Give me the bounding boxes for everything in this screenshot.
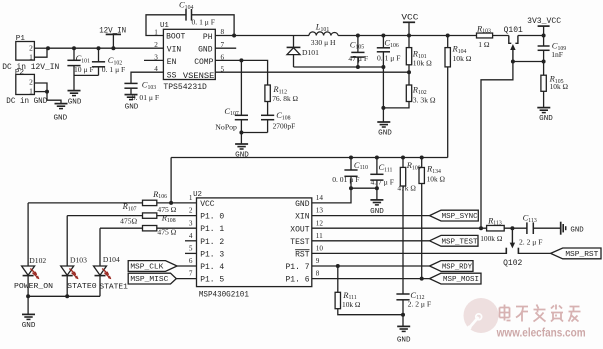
svg-text:GND: GND <box>295 200 310 209</box>
net MSP_MISC <box>128 273 196 284</box>
svg-text:3: 3 <box>189 219 193 227</box>
svg-text:10: 10 <box>316 245 324 253</box>
wire <box>27 296 29 314</box>
wire VCC rail <box>338 35 476 37</box>
svg-text:1nF: 1nF <box>551 50 563 59</box>
capacitor C102 <box>92 48 125 75</box>
resistor R112 <box>265 84 299 103</box>
svg-text:PH: PH <box>203 33 213 42</box>
net MSP_RDY <box>430 261 474 272</box>
node <box>381 65 385 69</box>
svg-text:1: 1 <box>189 194 193 202</box>
capacitor C105 <box>348 36 368 68</box>
svg-text:47k Ω: 47k Ω <box>397 184 416 193</box>
resistor R134 <box>419 158 446 279</box>
svg-text:11: 11 <box>316 232 323 240</box>
ground <box>22 314 36 330</box>
svg-text:MSP_RST: MSP_RST <box>565 251 599 259</box>
svg-text:RST: RST <box>295 251 310 260</box>
svg-text:POWER_ON: POWER_ON <box>14 283 53 291</box>
resistor R109 <box>397 158 420 295</box>
svg-text:475 Ω: 475 Ω <box>157 227 176 236</box>
node <box>65 294 69 298</box>
LED D103 <box>61 216 97 297</box>
svg-text:10k Ω: 10k Ω <box>453 54 472 63</box>
svg-text:9: 9 <box>316 257 320 265</box>
svg-text:10k Ω: 10k Ω <box>550 82 569 91</box>
svg-text:GND: GND <box>570 226 584 234</box>
node <box>407 34 411 38</box>
node <box>510 226 514 230</box>
wire <box>47 92 61 104</box>
wire <box>294 66 384 68</box>
node <box>479 226 483 230</box>
svg-text:GND: GND <box>539 115 553 123</box>
wire MOSI <box>312 278 430 280</box>
svg-text:10k Ω: 10k Ω <box>427 175 446 184</box>
svg-text:XIN: XIN <box>295 213 310 222</box>
svg-text:GND: GND <box>198 46 213 55</box>
svg-text:P1. 1: P1. 1 <box>200 225 224 234</box>
svg-text:DC in 12V_IN: DC in 12V_IN <box>2 64 59 72</box>
wire <box>267 102 269 116</box>
node <box>542 34 546 38</box>
node <box>45 90 49 94</box>
wire RST <box>312 252 507 254</box>
node <box>349 156 353 160</box>
wire GND stub <box>215 47 236 49</box>
svg-text:MSP430G2101: MSP430G2101 <box>199 290 249 299</box>
node <box>401 156 405 160</box>
wire BOOT <box>146 15 186 36</box>
resistor R113 <box>480 216 504 244</box>
wire <box>34 48 47 57</box>
ground <box>53 104 67 123</box>
wire mid rail <box>171 158 448 203</box>
wire SS <box>131 72 163 83</box>
net MSP_CLK <box>128 261 196 272</box>
svg-text:14: 14 <box>316 194 324 202</box>
ground <box>370 200 384 216</box>
capacitor C107 <box>215 60 248 132</box>
svg-text:VCC: VCC <box>401 12 418 22</box>
svg-text:STATE0: STATE0 <box>67 283 97 291</box>
svg-text:D103: D103 <box>70 255 87 264</box>
svg-text:2: 2 <box>29 44 33 53</box>
net MSP_TEST <box>430 235 479 246</box>
svg-text:GND: GND <box>370 208 384 216</box>
capacitor C109 <box>538 36 567 76</box>
svg-text:8: 8 <box>316 270 320 278</box>
svg-text:10k Ω: 10k Ω <box>342 300 361 309</box>
svg-text:MSP_TEST: MSP_TEST <box>442 238 479 246</box>
node <box>356 65 360 69</box>
svg-text:0. 1 μ F: 0. 1 μ F <box>377 54 400 63</box>
svg-text:TPS54231D: TPS54231D <box>163 83 207 92</box>
wire PH rail <box>215 35 309 37</box>
svg-text:5: 5 <box>189 245 193 253</box>
svg-text:0. 01 μ F: 0. 01 μ F <box>332 175 359 184</box>
node <box>401 313 405 317</box>
wire EN stub <box>144 59 163 61</box>
wire <box>518 252 550 254</box>
svg-text:GND: GND <box>22 322 36 330</box>
resistor R103 <box>476 23 493 49</box>
svg-text:10 μ F: 10 μ F <box>74 65 94 74</box>
svg-text:DC in GND: DC in GND <box>6 98 47 106</box>
svg-text:VSENSE: VSENSE <box>183 72 215 81</box>
transistor Q101 <box>493 26 544 62</box>
svg-text:13: 13 <box>316 207 324 215</box>
svg-text:Q102: Q102 <box>503 259 522 268</box>
wire <box>240 133 242 145</box>
svg-text:100k Ω: 100k Ω <box>480 234 503 243</box>
node <box>407 70 411 74</box>
capacitor C111 <box>370 158 394 200</box>
capacitor C104 <box>179 0 215 26</box>
svg-text:D101: D101 <box>302 48 319 57</box>
svg-text:6: 6 <box>189 257 193 265</box>
svg-text:P1. 5: P1. 5 <box>200 276 224 285</box>
capacitor C101 <box>67 48 93 90</box>
svg-text:COMP: COMP <box>194 58 213 67</box>
resistor R105 <box>541 74 569 108</box>
node <box>381 106 385 110</box>
node <box>381 34 385 38</box>
svg-text:475 Ω: 475 Ω <box>157 205 176 214</box>
resistor R107 <box>67 201 196 225</box>
wire <box>34 47 48 49</box>
svg-text:330 μ H: 330 μ H <box>311 38 336 47</box>
svg-text:www.elecfans.com: www.elecfans.com <box>496 325 586 339</box>
resistor R101 <box>406 36 432 73</box>
svg-text:4: 4 <box>189 232 193 240</box>
node <box>239 58 243 62</box>
svg-text:U1: U1 <box>160 22 169 30</box>
diode D101 <box>287 36 319 68</box>
node <box>349 186 353 190</box>
node <box>97 46 101 50</box>
wire VSENSE <box>215 71 409 73</box>
svg-text:2. 2 μ F: 2. 2 μ F <box>519 238 542 247</box>
svg-text:P1. 2: P1. 2 <box>200 238 224 247</box>
ground <box>397 326 411 344</box>
watermark elecfans logo <box>464 298 586 339</box>
svg-text:GND: GND <box>68 98 82 106</box>
svg-text:3V3_VCC: 3V3_VCC <box>527 17 561 26</box>
capacitor C108 <box>261 110 295 132</box>
wire GND row <box>312 188 351 203</box>
svg-text:GND: GND <box>397 337 411 345</box>
op-amp U1 TPS54231D <box>154 22 224 92</box>
node <box>375 156 379 160</box>
wire COMP <box>215 60 267 85</box>
svg-text:7: 7 <box>189 270 193 278</box>
wire <box>447 67 449 158</box>
svg-text:VIN: VIN <box>167 46 182 55</box>
wire LED common <box>28 295 100 297</box>
wire nc stubs <box>185 241 197 254</box>
node <box>420 277 424 281</box>
wire 12V rail <box>48 47 163 49</box>
node <box>420 156 424 160</box>
svg-text:GND: GND <box>53 115 67 123</box>
svg-text:475Ω: 475Ω <box>120 216 137 225</box>
svg-text:0. 1 μ F: 0. 1 μ F <box>192 17 215 26</box>
svg-text:EN: EN <box>167 58 177 67</box>
svg-text:3. 3k Ω: 3. 3k Ω <box>413 96 436 105</box>
op-amp U2 MSP430G2101 <box>189 191 323 299</box>
svg-text:1: 1 <box>29 52 33 61</box>
svg-text:TEST: TEST <box>290 238 309 247</box>
svg-text:GND: GND <box>235 152 249 160</box>
svg-text:1 Ω: 1 Ω <box>478 40 490 49</box>
net 12V_IN <box>99 27 126 49</box>
svg-text:2: 2 <box>154 41 158 49</box>
svg-text:STATE1: STATE1 <box>99 284 128 292</box>
svg-text:2: 2 <box>29 78 33 87</box>
ground <box>125 95 139 112</box>
node <box>169 201 173 205</box>
svg-text:P1. 6: P1. 6 <box>285 276 309 285</box>
wire TEST <box>312 240 430 242</box>
svg-text:P1. 4: P1. 4 <box>200 263 224 272</box>
svg-text:MSP_MISC: MSP_MISC <box>130 276 169 284</box>
svg-text:2. 2 μ F: 2. 2 μ F <box>408 300 431 309</box>
resistor R104 <box>445 36 472 67</box>
svg-text:D104: D104 <box>103 255 120 264</box>
svg-text:47 μ F: 47 μ F <box>348 54 368 63</box>
node 12V junction <box>46 46 50 50</box>
net MSP_RST <box>551 248 601 259</box>
svg-text:SS: SS <box>167 72 177 81</box>
node <box>232 34 236 38</box>
resistor R106 <box>28 189 196 214</box>
svg-text:10k Ω: 10k Ω <box>413 59 432 68</box>
svg-text:GND: GND <box>125 104 139 112</box>
svg-text:NoPop: NoPop <box>215 123 237 132</box>
LED D102 <box>14 203 53 296</box>
wire <box>192 15 235 36</box>
wire <box>34 83 47 92</box>
svg-text:XOUT: XOUT <box>290 225 309 234</box>
resistor R102 <box>383 72 435 108</box>
capacitor C103 <box>124 80 159 103</box>
inductor L101 <box>309 22 338 48</box>
node <box>111 46 115 50</box>
ground <box>235 144 249 160</box>
svg-text:12: 12 <box>316 219 324 227</box>
wire <box>481 62 513 229</box>
resistor R111 <box>335 266 403 315</box>
wire <box>513 61 544 63</box>
ground <box>68 91 82 107</box>
node <box>375 186 379 190</box>
node <box>356 34 360 38</box>
wire <box>74 74 99 76</box>
svg-text:4. 7 μ F: 4. 7 μ F <box>371 178 394 187</box>
svg-text:P1. 3: P1. 3 <box>200 250 224 259</box>
wire <box>533 227 560 229</box>
svg-text:U2: U2 <box>193 191 202 199</box>
svg-text:P1. 0: P1. 0 <box>200 213 224 222</box>
svg-text:MSP_RDY: MSP_RDY <box>442 264 473 272</box>
transistor Q102 <box>503 228 522 268</box>
LED D104 <box>94 228 129 296</box>
node <box>542 60 546 64</box>
capacitor C113 <box>519 213 542 247</box>
wire XOUT <box>312 227 487 229</box>
svg-text:GND: GND <box>378 130 392 138</box>
net 3V3_VCC <box>527 17 561 36</box>
capacitor C112 <box>396 290 431 327</box>
svg-text:P1. 7: P1. 7 <box>285 263 309 272</box>
svg-text:0. 1 μ F: 0. 1 μ F <box>102 65 125 74</box>
net MSP_MOSI <box>430 273 482 284</box>
net MSP_SYNC <box>430 210 479 221</box>
wire <box>34 91 47 93</box>
svg-text:MSP_MOSI: MSP_MOSI <box>443 276 479 284</box>
svg-text:BOOT: BOOT <box>166 33 185 42</box>
svg-text:P1: P1 <box>16 35 26 43</box>
wire RDY <box>312 265 430 267</box>
node <box>446 34 450 38</box>
svg-text:MSP_CLK: MSP_CLK <box>130 264 164 272</box>
capacitor C106 <box>377 36 401 123</box>
ground <box>537 108 553 123</box>
svg-text:1: 1 <box>29 86 33 95</box>
node <box>336 264 340 268</box>
node <box>239 131 243 135</box>
connector P1 <box>2 35 59 72</box>
svg-text:D102: D102 <box>29 256 46 265</box>
svg-text:2: 2 <box>189 207 193 215</box>
svg-text:Q101: Q101 <box>504 26 523 35</box>
svg-text:76. 8k Ω: 76. 8k Ω <box>272 94 298 103</box>
wire <box>351 187 377 189</box>
node <box>511 60 515 64</box>
svg-text:VCC: VCC <box>200 200 215 209</box>
wire XIN <box>312 215 430 217</box>
node <box>26 294 30 298</box>
ground <box>561 222 585 235</box>
svg-text:P2: P2 <box>15 69 25 77</box>
wire <box>504 227 527 229</box>
capacitor C110 <box>332 158 368 189</box>
ground <box>377 122 392 138</box>
svg-text:MSP_SYNC: MSP_SYNC <box>442 213 479 221</box>
node <box>72 46 76 50</box>
resistor R108 <box>100 213 197 237</box>
svg-text:2700pF: 2700pF <box>273 121 296 130</box>
net VCC <box>401 12 418 35</box>
connector P2 <box>6 69 47 106</box>
wire <box>241 132 267 134</box>
